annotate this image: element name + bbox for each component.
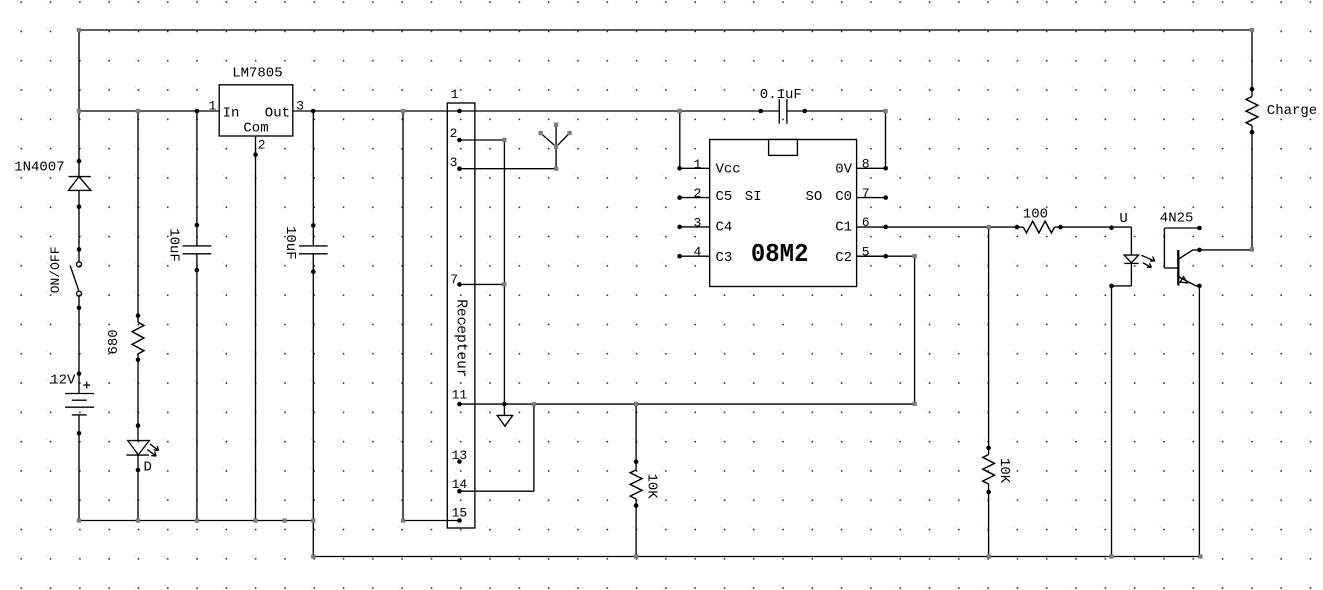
svg-text:ON/OFF: ON/OFF bbox=[48, 246, 63, 293]
svg-text:5: 5 bbox=[862, 244, 870, 259]
svg-text:Out: Out bbox=[265, 105, 290, 121]
svg-text:In: In bbox=[223, 105, 240, 121]
svg-text:0V: 0V bbox=[835, 161, 852, 177]
svg-text:10K: 10K bbox=[996, 458, 1012, 484]
svg-text:LM7805: LM7805 bbox=[232, 65, 282, 81]
svg-text:1: 1 bbox=[209, 98, 217, 113]
svg-text:C2: C2 bbox=[835, 250, 852, 266]
svg-text:C0: C0 bbox=[835, 189, 852, 205]
svg-text:2: 2 bbox=[450, 126, 458, 141]
svg-text:SO: SO bbox=[806, 189, 823, 205]
svg-text:4N25: 4N25 bbox=[1160, 211, 1194, 227]
svg-text:U: U bbox=[1119, 211, 1127, 227]
svg-text:1: 1 bbox=[694, 157, 702, 172]
svg-text:C5: C5 bbox=[716, 189, 733, 205]
svg-text:0.1uF: 0.1uF bbox=[760, 87, 802, 103]
svg-text:Recepteur: Recepteur bbox=[453, 299, 469, 377]
svg-text:3: 3 bbox=[694, 215, 702, 230]
svg-text:1N4007: 1N4007 bbox=[14, 159, 64, 175]
svg-text:1: 1 bbox=[451, 87, 459, 102]
svg-text:12V: 12V bbox=[50, 373, 76, 389]
svg-text:680: 680 bbox=[106, 329, 122, 354]
svg-text:D: D bbox=[144, 460, 152, 476]
svg-text:Vcc: Vcc bbox=[716, 161, 741, 177]
svg-text:7: 7 bbox=[450, 272, 458, 287]
svg-text:2: 2 bbox=[258, 137, 266, 152]
svg-text:4: 4 bbox=[694, 245, 702, 260]
svg-text:Charge: Charge bbox=[1267, 103, 1317, 119]
svg-text:15: 15 bbox=[452, 505, 468, 520]
svg-text:10K: 10K bbox=[644, 474, 660, 500]
svg-text:13: 13 bbox=[452, 448, 468, 463]
svg-text:3: 3 bbox=[450, 155, 458, 170]
svg-text:6: 6 bbox=[862, 215, 870, 230]
svg-text:3: 3 bbox=[296, 98, 304, 113]
svg-text:C3: C3 bbox=[716, 250, 733, 266]
svg-text:2: 2 bbox=[694, 186, 702, 201]
svg-text:11: 11 bbox=[452, 388, 468, 403]
svg-text:100: 100 bbox=[1023, 206, 1048, 222]
svg-text:8: 8 bbox=[862, 157, 870, 172]
svg-text:C1: C1 bbox=[835, 220, 852, 236]
svg-text:08M2: 08M2 bbox=[751, 239, 809, 269]
svg-text:14: 14 bbox=[452, 477, 468, 492]
svg-text:Com: Com bbox=[243, 120, 268, 136]
svg-text:C4: C4 bbox=[716, 220, 733, 236]
svg-text:10uF: 10uF bbox=[166, 228, 182, 262]
svg-text:10uF: 10uF bbox=[282, 226, 298, 260]
svg-text:7: 7 bbox=[862, 186, 870, 201]
svg-text:SI: SI bbox=[745, 189, 762, 205]
